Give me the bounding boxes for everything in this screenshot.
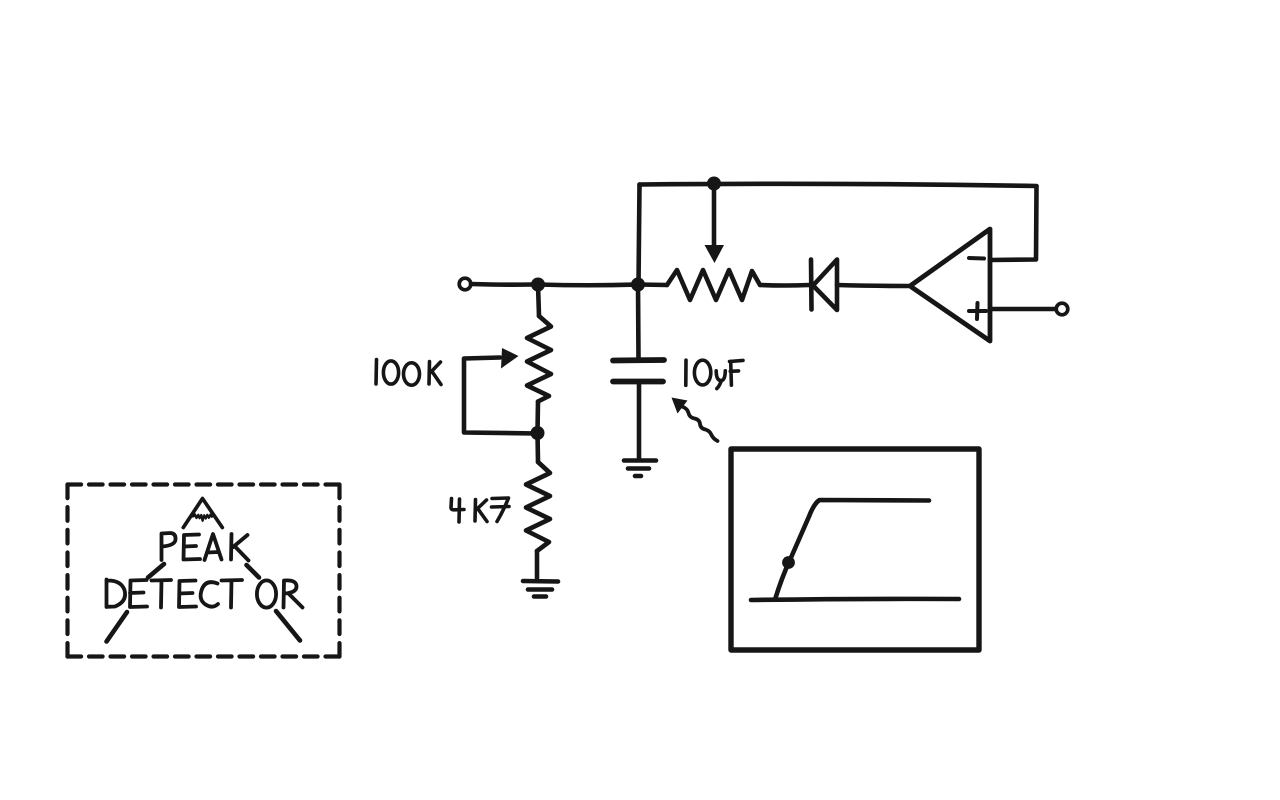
resistor R3	[526, 462, 550, 551]
riser wire from top rail down to node B	[639, 185, 640, 285]
op-amp U1	[910, 229, 990, 341]
callout arrowhead pointing at capacitor	[672, 398, 688, 414]
capacitor C1 top plate	[613, 357, 664, 363]
slope stroke upper left	[148, 564, 164, 578]
ground under R3	[523, 581, 558, 597]
R1 wiper arrowhead	[501, 348, 519, 369]
potentiometer R1 body	[527, 316, 551, 402]
wire node B to resistor R2	[638, 282, 667, 287]
node B	[631, 278, 645, 292]
title text PEAK	[162, 533, 249, 561]
mountain icon	[183, 499, 222, 528]
mountain snow line	[193, 515, 212, 521]
output terminal	[1056, 303, 1068, 315]
label 10uF	[686, 360, 743, 388]
top rail wire	[640, 184, 1037, 186]
feedback wire from minus input up to top rail	[990, 187, 1037, 261]
R1 wiper loop wire	[464, 358, 538, 434]
input terminal	[459, 278, 471, 290]
title box dashed border	[68, 485, 340, 657]
ground under capacitor	[624, 461, 656, 477]
scope rising curve trace	[775, 500, 929, 600]
resistor R2	[667, 270, 760, 300]
wire node B down to capacitor C1	[636, 285, 641, 361]
slope stroke upper right	[247, 565, 260, 578]
wire node D to resistor R3	[535, 433, 540, 462]
output wire	[990, 307, 1055, 312]
wire R2 to diode D1	[760, 283, 809, 288]
slope stroke lower left	[107, 612, 128, 642]
wire node A down to potentiometer R1	[538, 285, 539, 317]
wire R1 to node D	[535, 402, 540, 433]
op-amp plus sign	[969, 303, 986, 319]
scope dot on curve	[782, 556, 795, 569]
wire capacitor C1 to ground	[637, 382, 642, 459]
op-amp minus sign	[969, 256, 984, 261]
node A	[531, 278, 545, 292]
wire R3 to ground	[535, 551, 540, 578]
wiper arrowhead pointing down at R2	[705, 245, 725, 263]
wire input to node A	[471, 282, 532, 287]
node C on top rail	[707, 177, 721, 191]
wire D1 to op-amp U1	[837, 285, 908, 286]
node D	[531, 426, 545, 440]
title text DETECTOR	[107, 580, 303, 608]
diode D1 triangle	[813, 260, 837, 311]
slope stroke lower right	[276, 611, 300, 641]
oscilloscope screen box	[731, 449, 979, 650]
callout squiggle arrow tail	[682, 407, 718, 442]
wiper arrow wire from node C down to R2	[712, 184, 717, 246]
capacitor C1 bottom plate	[613, 379, 663, 385]
label 100K	[376, 360, 441, 386]
scope baseline trace	[751, 599, 959, 600]
wire node A to node B	[538, 282, 638, 287]
diode D1 cathode bar	[809, 260, 814, 310]
label 4K7	[451, 498, 509, 522]
